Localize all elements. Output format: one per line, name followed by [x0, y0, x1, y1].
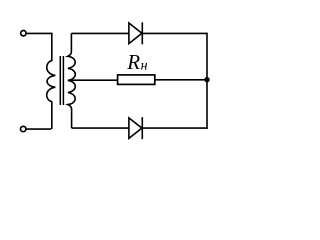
- wire (resistor to junction): [155, 79, 207, 81]
- transformer T1 secondary winding (center-tapped): [68, 33, 76, 128]
- svg-text:н: н: [141, 59, 148, 74]
- terminal (input, bottom-left): [21, 126, 26, 131]
- node (junction dot on right rail): [204, 77, 209, 82]
- terminal (input, top-left): [21, 31, 26, 36]
- wire (secondary top to diode VD1): [71, 32, 128, 34]
- wire (diode VD2 cathode to right rail): [142, 127, 208, 129]
- wire (bottom-left terminal to transformer primary): [26, 128, 51, 130]
- diode VD2 (bottom): [129, 117, 142, 139]
- wire (diode VD1 cathode to right rail): [142, 32, 207, 34]
- wire (top-left terminal to transformer primary): [27, 32, 51, 34]
- transformer T1 primary winding: [47, 33, 56, 130]
- wire (right rail): [206, 33, 208, 129]
- resistor Rn (load): [118, 75, 155, 85]
- wire (secondary bottom to diode VD2): [72, 127, 129, 129]
- diode VD1 (top): [129, 22, 142, 44]
- transformer T1 core: [60, 56, 63, 105]
- wire (center tap to resistor): [68, 79, 118, 81]
- svg-text:R: R: [126, 50, 140, 74]
